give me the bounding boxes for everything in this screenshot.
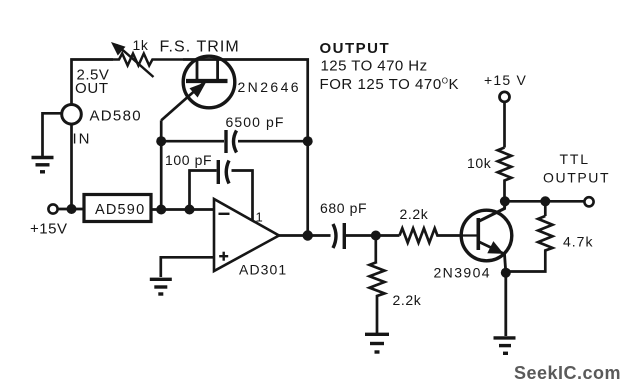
svg-text:AD590: AD590 bbox=[95, 202, 145, 218]
svg-text:SeekIC.com: SeekIC.com bbox=[514, 363, 621, 383]
svg-text:4.7k: 4.7k bbox=[563, 234, 593, 250]
svg-text:10k: 10k bbox=[467, 155, 492, 171]
svg-text:OUT: OUT bbox=[75, 80, 109, 97]
svg-text:2.2k: 2.2k bbox=[400, 206, 429, 222]
svg-text:TTL: TTL bbox=[560, 151, 590, 167]
svg-text:+15V: +15V bbox=[30, 221, 67, 238]
svg-text:AD301: AD301 bbox=[239, 262, 287, 278]
svg-text:2.2k: 2.2k bbox=[393, 292, 422, 308]
svg-text:AD580: AD580 bbox=[90, 107, 142, 124]
svg-text:F.S. TRIM: F.S. TRIM bbox=[160, 39, 240, 56]
svg-text:OUTPUT: OUTPUT bbox=[320, 40, 391, 57]
svg-text:6500 pF: 6500 pF bbox=[226, 114, 285, 130]
svg-text:+15 V: +15 V bbox=[484, 72, 527, 88]
svg-text:IN: IN bbox=[73, 131, 92, 148]
svg-text:2N3904: 2N3904 bbox=[434, 265, 491, 281]
svg-text:680 pF: 680 pF bbox=[320, 200, 367, 216]
svg-text:FOR 125 TO 470OK: FOR 125 TO 470OK bbox=[320, 76, 460, 93]
svg-text:1k: 1k bbox=[133, 37, 149, 53]
svg-text:2N2646: 2N2646 bbox=[238, 79, 301, 95]
svg-text:1: 1 bbox=[256, 210, 264, 225]
svg-text:OUTPUT: OUTPUT bbox=[543, 170, 610, 186]
svg-text:125 TO 470 Hz: 125 TO 470 Hz bbox=[321, 58, 428, 75]
svg-text:100 pF: 100 pF bbox=[165, 152, 212, 168]
